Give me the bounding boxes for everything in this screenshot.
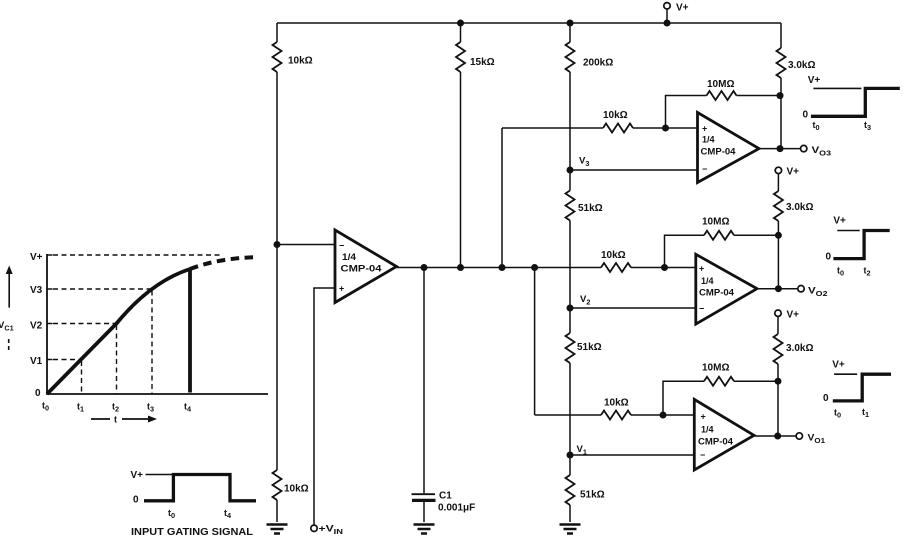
svg-text:10MΩ: 10MΩ: [702, 217, 729, 228]
svg-text:V+: V+: [808, 75, 821, 86]
svg-text:−: −: [702, 164, 707, 174]
svg-text:+: +: [701, 412, 706, 422]
svg-text:V2: V2: [30, 321, 43, 332]
svg-text:V3: V3: [30, 285, 43, 296]
svg-text:t: t: [114, 415, 117, 425]
svg-text:10MΩ: 10MΩ: [702, 363, 729, 374]
svg-text:C1: C1: [439, 491, 452, 502]
svg-text:3.0kΩ: 3.0kΩ: [786, 202, 813, 213]
svg-text:200kΩ: 200kΩ: [583, 58, 613, 69]
svg-text:CMP-04: CMP-04: [699, 288, 734, 298]
svg-text:1/4: 1/4: [701, 425, 714, 435]
svg-text:V+: V+: [832, 360, 845, 371]
svg-text:+: +: [702, 124, 707, 134]
svg-text:3.0kΩ: 3.0kΩ: [788, 60, 815, 71]
svg-text:51kΩ: 51kΩ: [580, 490, 605, 501]
svg-text:0: 0: [803, 110, 809, 121]
svg-text:10kΩ: 10kΩ: [288, 56, 313, 67]
svg-text:−: −: [699, 304, 704, 314]
svg-text:V+: V+: [833, 216, 846, 227]
svg-text:10kΩ: 10kΩ: [603, 110, 628, 121]
svg-text:V+: V+: [30, 252, 43, 263]
svg-text:−: −: [700, 450, 705, 460]
svg-text:3.0kΩ: 3.0kΩ: [786, 343, 813, 354]
svg-text:−: −: [339, 241, 344, 251]
svg-text:15kΩ: 15kΩ: [470, 57, 495, 68]
svg-text:1/4: 1/4: [702, 135, 715, 145]
svg-text:0: 0: [133, 495, 139, 506]
svg-text:+: +: [699, 264, 704, 274]
svg-text:V+: V+: [131, 470, 144, 481]
svg-text:1/4: 1/4: [701, 276, 714, 286]
svg-text:V1: V1: [30, 356, 43, 367]
svg-text:0: 0: [823, 393, 829, 404]
svg-text:+: +: [339, 284, 344, 294]
svg-text:10MΩ: 10MΩ: [707, 79, 734, 90]
svg-text:0: 0: [35, 388, 41, 399]
svg-text:V+: V+: [787, 167, 800, 178]
svg-text:51kΩ: 51kΩ: [577, 342, 602, 353]
svg-text:10kΩ: 10kΩ: [604, 398, 629, 409]
svg-text:V+: V+: [676, 3, 689, 14]
svg-text:INPUT GATING SIGNAL: INPUT GATING SIGNAL: [131, 527, 253, 538]
svg-text:CMP-04: CMP-04: [698, 437, 733, 447]
svg-text:0: 0: [826, 252, 832, 263]
svg-text:10kΩ: 10kΩ: [601, 250, 626, 261]
svg-text:0.001μF: 0.001μF: [438, 503, 475, 514]
svg-text:CMP-04: CMP-04: [701, 147, 736, 157]
svg-text:CMP-04: CMP-04: [341, 264, 382, 274]
svg-text:V+: V+: [787, 310, 800, 321]
svg-text:10kΩ: 10kΩ: [284, 484, 309, 495]
svg-text:1/4: 1/4: [342, 252, 356, 262]
svg-text:51kΩ: 51kΩ: [578, 203, 603, 214]
